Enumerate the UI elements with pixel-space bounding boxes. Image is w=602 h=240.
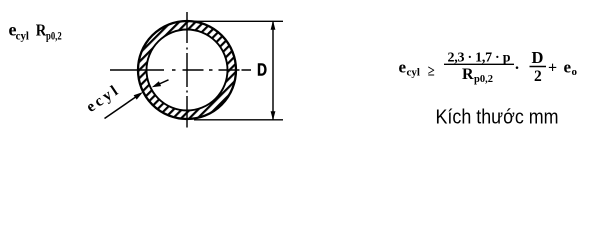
svg-text:o: o [572, 66, 578, 78]
svg-text:D: D [532, 48, 544, 67]
svg-text:2: 2 [534, 68, 542, 85]
svg-text:e: e [564, 57, 572, 76]
svg-text:R: R [462, 66, 474, 83]
svg-text:+: + [548, 60, 557, 77]
svg-text:Kích thước mm: Kích thước mm [436, 106, 559, 128]
svg-text:.: . [515, 56, 519, 73]
svg-text:p0,2: p0,2 [46, 30, 62, 42]
svg-text:cyl: cyl [407, 67, 420, 79]
svg-text:≥: ≥ [428, 64, 435, 80]
svg-text:2,3 · 1,7 · p: 2,3 · 1,7 · p [448, 51, 511, 66]
svg-text:cyl: cyl [16, 30, 29, 42]
svg-text:e: e [399, 58, 407, 77]
svg-text:p0,2: p0,2 [474, 74, 493, 85]
svg-text:ecyl: ecyl [83, 81, 123, 116]
